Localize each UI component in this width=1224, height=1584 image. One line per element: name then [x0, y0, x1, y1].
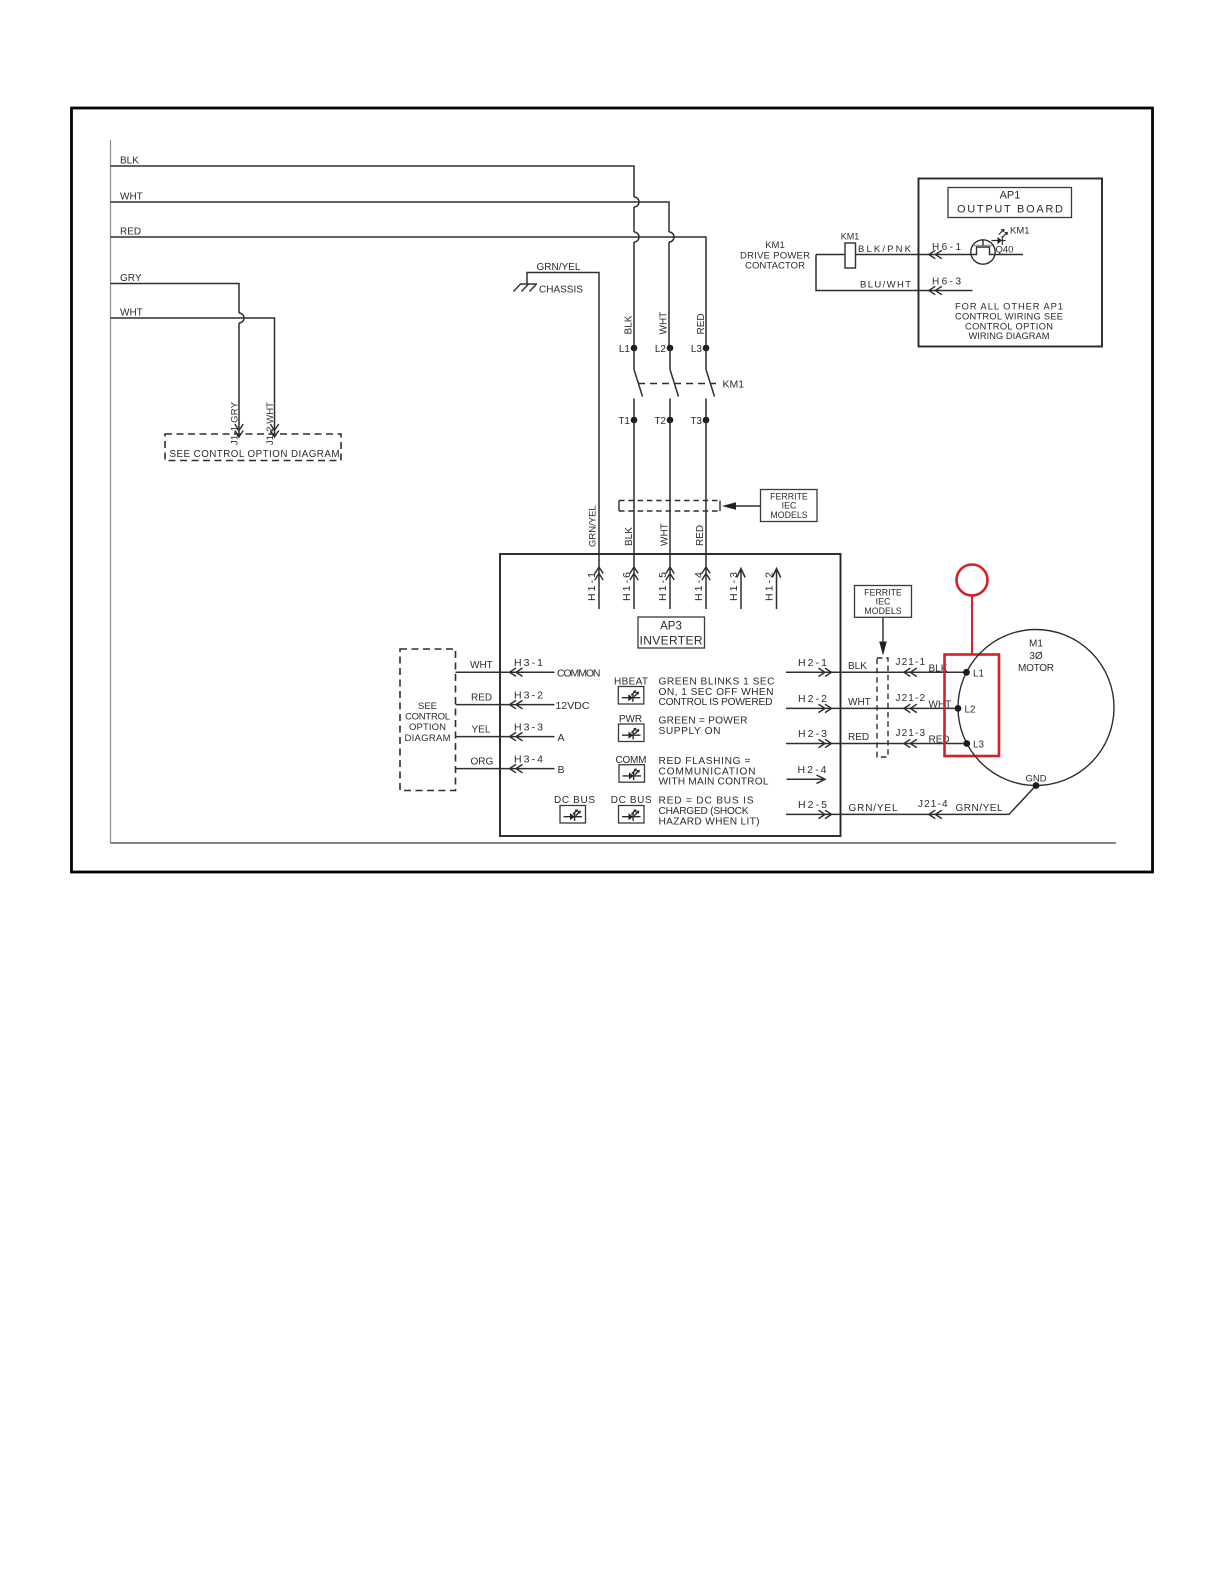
svg-text:GRN/YEL: GRN/YEL	[537, 262, 581, 273]
pin H1-1	[598, 554, 600, 609]
wire BLK to L1	[111, 166, 635, 348]
inner sheet edge bottom	[111, 842, 1117, 844]
ferrite callout arrow	[722, 502, 736, 510]
note HBEAT	[659, 676, 775, 708]
svg-text:GND: GND	[1025, 774, 1046, 785]
svg-text:M1: M1	[1029, 639, 1043, 650]
svg-text:H2-1: H2-1	[798, 657, 827, 669]
svg-text:AP1: AP1	[1000, 190, 1021, 202]
svg-text:H3-4: H3-4	[514, 753, 543, 765]
svg-text:CHASSIS: CHASSIS	[539, 285, 583, 296]
wire T3 to H1-4	[705, 420, 707, 554]
svg-text:WHT: WHT	[660, 523, 671, 546]
svg-text:H3-3: H3-3	[514, 721, 543, 733]
wire BLK/PNK	[816, 254, 971, 256]
note DC BUS	[659, 796, 760, 828]
svg-text:GRN/YEL: GRN/YEL	[588, 505, 599, 547]
svg-text:MOTOR: MOTOR	[1018, 663, 1054, 674]
svg-text:WHT: WHT	[120, 308, 143, 319]
wire WHT to L2	[111, 202, 670, 348]
node L2	[667, 345, 674, 352]
wire BLU/WHT	[816, 255, 973, 291]
contactor KM1 pole 2	[670, 348, 679, 420]
pin H2-2	[786, 707, 841, 709]
svg-text:GRY: GRY	[120, 273, 142, 284]
wire YEL H3-3	[456, 736, 555, 738]
wire Q40 output	[995, 254, 1023, 256]
svg-text:CONTACTOR: CONTACTOR	[745, 261, 805, 272]
node L1	[631, 345, 638, 352]
svg-text:WHT: WHT	[929, 699, 952, 710]
svg-text:T2: T2	[654, 416, 666, 427]
wire BLK J21-1	[841, 671, 967, 673]
svg-text:H1-6: H1-6	[621, 572, 633, 601]
pin H2-3	[786, 743, 841, 745]
contactor KM1 linkage	[638, 383, 716, 385]
svg-text:RED: RED	[696, 313, 707, 334]
svg-text:RED: RED	[695, 525, 706, 546]
wire RED J21-3	[841, 743, 967, 745]
node L3 motor	[963, 740, 970, 747]
pin H1-4	[705, 554, 707, 609]
svg-text:BLK: BLK	[624, 527, 635, 546]
wire T1 to H1-6	[633, 420, 635, 554]
ferrite core (IEC models, line side)	[619, 501, 720, 512]
control option dashed box	[165, 434, 341, 461]
svg-text:AP3: AP3	[660, 621, 682, 633]
contactor KM1 pole 3	[706, 348, 715, 420]
svg-text:12VDC: 12VDC	[556, 700, 590, 712]
red callout line	[971, 596, 973, 655]
node T3	[703, 417, 710, 424]
node L2 motor	[955, 705, 962, 712]
node L3	[703, 345, 710, 352]
svg-text:3Ø: 3Ø	[1029, 651, 1043, 662]
AP1 output board box	[919, 179, 1103, 347]
note PWR	[659, 716, 748, 737]
ferrite callout box 2	[855, 586, 912, 618]
node T1	[631, 417, 638, 424]
svg-text:IEC: IEC	[876, 597, 891, 607]
svg-text:T1: T1	[618, 416, 630, 427]
control option dashed box (left)	[400, 649, 456, 791]
svg-text:H3-2: H3-2	[514, 689, 543, 701]
svg-text:Q40: Q40	[996, 245, 1014, 256]
svg-text:COMMON: COMMON	[557, 668, 601, 680]
ferrite callout arrow 2	[882, 617, 884, 642]
wire WHT to J1-2	[111, 318, 275, 437]
AP3 title box	[638, 617, 705, 648]
svg-text:ORG: ORG	[471, 757, 494, 768]
svg-text:MODELS: MODELS	[864, 606, 901, 616]
wire T2 to H1-5	[669, 420, 671, 554]
svg-text:L3: L3	[973, 740, 984, 751]
pin H2-1	[786, 671, 841, 673]
svg-text:J21-3: J21-3	[896, 728, 926, 739]
wire GRY to J1-1	[111, 284, 240, 438]
svg-text:GRN/YEL: GRN/YEL	[849, 803, 898, 814]
svg-text:H1-1: H1-1	[586, 572, 598, 601]
svg-text:HAZARD WHEN LIT): HAZARD WHEN LIT)	[659, 816, 760, 827]
svg-text:L2: L2	[965, 705, 976, 716]
wire ORG H3-4	[456, 768, 555, 770]
svg-text:J1-2 WHT: J1-2 WHT	[265, 402, 276, 445]
svg-text:WHT: WHT	[120, 192, 143, 203]
motor M1	[958, 630, 1114, 786]
svg-text:H1-5: H1-5	[657, 572, 669, 601]
svg-text:WHT: WHT	[848, 697, 871, 708]
svg-text:L1: L1	[619, 344, 631, 355]
node GND	[1033, 782, 1040, 789]
coil KM1	[845, 243, 856, 268]
svg-text:H2-5: H2-5	[798, 799, 827, 811]
svg-text:SUPPLY ON: SUPPLY ON	[659, 726, 721, 737]
LED drive symbol (to KM1)	[992, 230, 1008, 246]
svg-text:H2-4: H2-4	[798, 764, 827, 776]
svg-text:RED = DC BUS IS: RED = DC BUS IS	[659, 796, 754, 807]
red highlight rectangle	[945, 655, 1000, 757]
svg-text:L2: L2	[655, 344, 667, 355]
wire WHT H3-1	[456, 671, 555, 673]
svg-text:CONTROL OPTION: CONTROL OPTION	[965, 322, 1053, 332]
svg-text:WHT: WHT	[470, 660, 493, 671]
svg-text:BLK: BLK	[120, 156, 139, 167]
svg-text:J21-4: J21-4	[918, 799, 948, 810]
svg-text:OPTION: OPTION	[409, 722, 446, 733]
svg-text:ON, 1 SEC OFF WHEN: ON, 1 SEC OFF WHEN	[659, 687, 774, 698]
svg-text:WHT: WHT	[659, 312, 670, 335]
wire RED H3-2	[456, 704, 555, 706]
svg-text:DIAGRAM: DIAGRAM	[405, 733, 451, 744]
pin H1-6	[633, 554, 635, 609]
svg-text:BLK: BLK	[624, 315, 635, 334]
border frame	[72, 108, 1153, 872]
svg-text:H1-4: H1-4	[693, 572, 705, 601]
svg-text:RED: RED	[471, 693, 492, 704]
svg-text:J21-1: J21-1	[896, 657, 926, 668]
svg-text:COMMUNICATION: COMMUNICATION	[659, 766, 756, 777]
svg-text:CHARGED (SHOCK: CHARGED (SHOCK	[659, 806, 749, 817]
svg-text:YEL: YEL	[472, 725, 491, 736]
node T2	[667, 417, 674, 424]
svg-text:KM1: KM1	[765, 240, 785, 251]
pin H1-2	[772, 569, 780, 610]
svg-text:HBEAT: HBEAT	[614, 677, 648, 688]
svg-text:A: A	[558, 732, 565, 744]
svg-text:H2-2: H2-2	[798, 693, 827, 705]
svg-text:SEE CONTROL OPTION DIAGRAM: SEE CONTROL OPTION DIAGRAM	[170, 449, 340, 460]
svg-text:H3-1: H3-1	[514, 657, 543, 669]
svg-text:INVERTER: INVERTER	[640, 634, 703, 648]
svg-text:FOR ALL OTHER AP1: FOR ALL OTHER AP1	[955, 302, 1063, 312]
svg-text:WIRING DIAGRAM: WIRING DIAGRAM	[969, 331, 1050, 341]
svg-text:KM1: KM1	[841, 232, 860, 242]
note COMM	[659, 756, 769, 788]
svg-text:H1-3: H1-3	[728, 572, 740, 601]
contactor KM1 pole 1	[634, 348, 643, 420]
svg-text:J1-1 GRY: J1-1 GRY	[230, 401, 241, 445]
svg-text:MODELS: MODELS	[770, 510, 807, 520]
AP1 title box	[948, 188, 1072, 218]
svg-text:CONTROL: CONTROL	[405, 712, 450, 723]
svg-text:J21-2: J21-2	[896, 693, 926, 704]
svg-text:WITH MAIN CONTROL: WITH MAIN CONTROL	[659, 777, 769, 788]
pin H1-3	[737, 569, 745, 610]
svg-text:H2-3: H2-3	[798, 728, 827, 740]
pin H2-5	[786, 813, 841, 815]
wire RED to L3	[111, 237, 707, 348]
svg-text:GREEN BLINKS 1 SEC: GREEN BLINKS 1 SEC	[659, 676, 775, 687]
svg-text:T3: T3	[690, 416, 702, 427]
ferrite core (IEC models, motor side)	[877, 658, 888, 757]
svg-text:SEE: SEE	[418, 701, 437, 712]
pin H2-4	[787, 775, 826, 783]
svg-text:H6-1: H6-1	[932, 242, 961, 253]
svg-text:GREEN = POWER: GREEN = POWER	[659, 716, 748, 727]
wire GRN/YEL chassis to H1-1	[527, 273, 599, 555]
ferrite callout box 1	[761, 490, 818, 522]
svg-text:CONTROL IS POWERED: CONTROL IS POWERED	[659, 697, 773, 708]
ground chassis symbol	[514, 284, 538, 292]
svg-text:RED: RED	[848, 732, 869, 743]
pin H1-5	[669, 554, 671, 609]
node L1 motor	[963, 669, 970, 676]
svg-text:GRN/YEL: GRN/YEL	[956, 803, 1003, 814]
inner sheet edge left	[110, 140, 112, 843]
svg-text:OUTPUT BOARD: OUTPUT BOARD	[957, 204, 1063, 216]
svg-text:KM1: KM1	[1010, 226, 1030, 237]
svg-text:KM1: KM1	[723, 379, 745, 391]
svg-text:H1-2: H1-2	[764, 572, 776, 601]
svg-text:CONTROL WIRING SEE: CONTROL WIRING SEE	[955, 312, 1063, 322]
svg-text:RED: RED	[929, 735, 950, 746]
svg-text:B: B	[558, 764, 565, 776]
red callout circle	[957, 565, 988, 596]
svg-text:RED: RED	[120, 227, 141, 238]
wire GRN/YEL J21-4 to GND	[841, 786, 1036, 815]
svg-text:DC BUS: DC BUS	[611, 795, 652, 806]
wire WHT J21-2	[841, 707, 958, 709]
AP3 inverter box	[500, 554, 841, 836]
svg-text:L1: L1	[973, 669, 984, 680]
svg-text:H6-3: H6-3	[932, 277, 961, 288]
svg-text:RED FLASHING =: RED FLASHING =	[659, 756, 751, 767]
svg-text:L3: L3	[691, 344, 703, 355]
transistor Q40	[971, 240, 995, 265]
svg-text:BLK: BLK	[848, 661, 867, 672]
svg-text:DC BUS: DC BUS	[554, 795, 595, 806]
svg-text:IEC: IEC	[782, 501, 797, 511]
